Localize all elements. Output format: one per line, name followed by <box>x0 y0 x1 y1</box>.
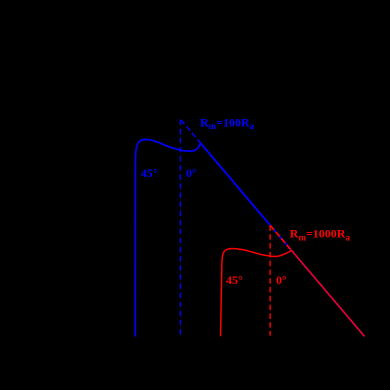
svg-text:45°: 45° <box>226 273 243 287</box>
svg-text:0°: 0° <box>276 273 287 287</box>
red response curve Rm=1000Ra <box>221 249 365 337</box>
svg-text:0°: 0° <box>186 166 197 180</box>
red dashed vertical asymptote <box>269 225 271 335</box>
blue dashed vertical asymptote <box>179 120 181 337</box>
svg-text:45°: 45° <box>141 166 158 180</box>
svg-text:Rm=100Ra: Rm=100Ra <box>200 115 255 130</box>
red dashed diagonal asymptote segment (overlaps blue diagonal) <box>270 225 292 250</box>
asymptote diagonal (blue solid, -6dB/oct) <box>201 143 365 336</box>
blue response curve Rm=100Ra <box>135 139 364 336</box>
blue dashed diagonal asymptote segment <box>181 120 201 143</box>
